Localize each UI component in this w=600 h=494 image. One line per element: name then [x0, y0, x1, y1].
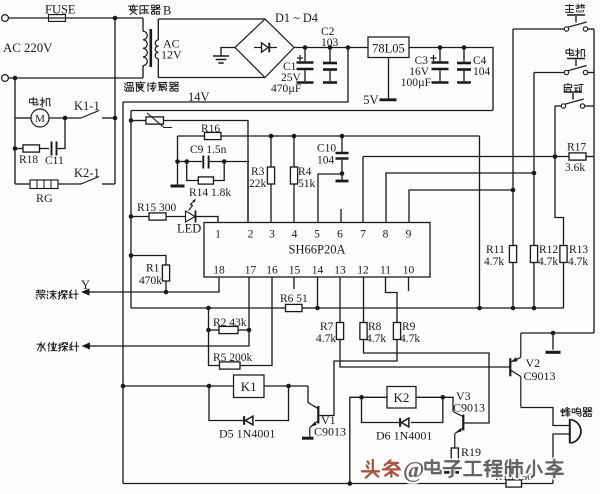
svg-text:3: 3	[269, 229, 275, 241]
label transformer 变压器	[129, 5, 161, 15]
wire pin5	[318, 174, 342, 223]
transformer B core	[150, 29, 153, 67]
wire thermistor to node	[164, 121, 249, 223]
switch heat 加热	[564, 15, 587, 31]
transistor V2 C9013	[510, 333, 521, 408]
junction AC bottom node	[13, 76, 18, 81]
svg-text:R19: R19	[461, 445, 481, 459]
wire R9 to V1 base	[320, 340, 398, 416]
svg-text:R17: R17	[567, 142, 586, 154]
wire pin18 to Y	[87, 277, 219, 292]
svg-text:51k: 51k	[298, 178, 316, 190]
switch K2-1	[81, 177, 115, 185]
wire pin12 R8	[363, 277, 365, 323]
capacitor C2	[323, 48, 337, 83]
wire AC top left	[8, 17, 48, 19]
wire R15 to LED	[166, 216, 186, 218]
svg-text:470k: 470k	[139, 275, 162, 287]
bridge rectifier D1-D4 diamond	[235, 19, 294, 78]
wire R2 right lead	[238, 329, 249, 331]
wire bottom rail left	[123, 483, 506, 485]
wire pin17 to water	[88, 277, 250, 346]
wire V2 to buzzer	[521, 408, 569, 426]
wire C9 right lead	[209, 161, 249, 163]
resistor R2	[219, 326, 238, 333]
wire motor left	[15, 117, 31, 119]
resistor R5	[220, 362, 241, 369]
resistor R6	[286, 304, 303, 311]
label start key 启动	[564, 83, 583, 92]
wire K1 line right	[264, 385, 308, 387]
svg-text:4.7k: 4.7k	[484, 256, 504, 268]
junction VDD pin3	[269, 134, 274, 139]
junction R17 start	[553, 154, 558, 159]
svg-text:R6 51: R6 51	[280, 293, 308, 305]
junction R2 right	[247, 328, 252, 333]
wire D5 left riser	[209, 386, 243, 421]
svg-text:16: 16	[266, 265, 278, 277]
junction pin8 motor-key	[532, 171, 537, 176]
wire rail 14V left	[122, 102, 124, 484]
wire LED to pin1	[196, 217, 218, 223]
resistor R15	[149, 213, 166, 220]
wire AC bottom	[8, 77, 143, 79]
wire heat key left	[513, 28, 564, 30]
wire R2 left lead	[209, 329, 220, 331]
svg-text:103: 103	[321, 37, 339, 49]
label buzzer 蜂鸣器	[561, 408, 592, 417]
svg-text:R5 200k: R5 200k	[213, 352, 253, 364]
watermark handle text	[403, 458, 563, 484]
wire R7 to V2 base	[340, 340, 510, 368]
resistor R17	[569, 153, 586, 160]
svg-text:FUSE: FUSE	[45, 3, 76, 17]
ground bar osc	[171, 185, 185, 188]
junction R1 bottom	[164, 290, 169, 295]
svg-text:2: 2	[248, 229, 254, 241]
capacitor C3	[431, 48, 449, 83]
wire R4 top	[293, 136, 295, 167]
wire secondary top to bridge	[158, 18, 265, 20]
svg-text:K1: K1	[241, 379, 257, 394]
wire 78L05 gnd pin	[388, 58, 390, 99]
wire 5V rail right of 78L05	[409, 48, 493, 111]
wire motor right	[49, 117, 81, 119]
svg-text:3.6k: 3.6k	[565, 162, 585, 174]
wire motor branch vertical	[14, 78, 16, 184]
svg-text:K2: K2	[394, 390, 410, 405]
ground bar 5V	[380, 98, 397, 101]
svg-text:8: 8	[383, 229, 389, 241]
wire K2 supply	[350, 397, 387, 483]
diode D5	[244, 416, 253, 425]
ground bridge	[213, 56, 229, 63]
wire osc gnd riser	[177, 136, 179, 185]
label foam probe 浆沫探针	[36, 290, 78, 299]
junction VDD C10	[340, 134, 345, 139]
wire pin4 R4 vertical	[293, 184, 295, 223]
svg-text:12V: 12V	[161, 48, 182, 62]
junction R2 left	[206, 328, 211, 333]
svg-text:10: 10	[403, 265, 415, 277]
thermistor strike	[147, 113, 172, 128]
junction C3 top	[438, 45, 443, 50]
svg-text:SH66P20A: SH66P20A	[289, 243, 346, 257]
junction D5 left	[207, 384, 212, 389]
svg-text:7: 7	[360, 229, 366, 241]
resistor R11	[509, 246, 516, 263]
svg-text:15: 15	[289, 265, 301, 277]
resistor R3	[267, 167, 274, 184]
junction probe divider tap	[206, 306, 211, 311]
svg-text:R7: R7	[320, 321, 334, 333]
wire thermistor line	[131, 120, 146, 122]
svg-text:M: M	[35, 113, 45, 125]
resistor R10 150	[506, 480, 522, 487]
wire C11 to motor node	[57, 118, 66, 149]
wire D6 right riser	[411, 397, 443, 422]
svg-text:R3: R3	[251, 166, 265, 178]
capacitor C4	[457, 48, 471, 83]
junction thermistor tap	[129, 118, 134, 123]
capacitor C1	[297, 48, 314, 83]
resistor R8	[360, 323, 367, 340]
wire R14 left riser	[187, 162, 199, 181]
junction C10 bottom	[340, 171, 345, 176]
junction snubber left	[13, 146, 18, 151]
wire R12 bottom lead	[533, 263, 535, 309]
svg-text:R1: R1	[146, 263, 160, 275]
wire rail 5V left	[130, 111, 132, 309]
wire RG right	[58, 183, 81, 185]
transformer B secondary	[155, 19, 158, 78]
svg-text:RG: RG	[36, 191, 53, 205]
wire V2 gnd stem	[552, 333, 554, 350]
svg-text:B: B	[163, 4, 171, 18]
wire start key right	[585, 105, 594, 107]
arrow water probe	[82, 342, 91, 349]
svg-text:@: @	[403, 458, 424, 484]
svg-text:R4: R4	[298, 166, 312, 178]
resistor R7	[336, 323, 343, 340]
wire pin2 stub	[247, 162, 249, 223]
svg-text:5V: 5V	[363, 93, 378, 107]
wire C9 left lead	[178, 161, 203, 163]
svg-text:D5 1N4001: D5 1N4001	[219, 427, 275, 441]
wire pin14	[317, 277, 319, 308]
wire R18 to C11	[40, 148, 50, 150]
svg-text:R14 1.8k: R14 1.8k	[189, 187, 231, 199]
wire V2 collector line	[521, 332, 594, 334]
capacitor C10	[336, 136, 349, 174]
ground bar C10	[336, 180, 349, 183]
svg-text:14V: 14V	[188, 90, 210, 104]
svg-text:C10: C10	[317, 143, 336, 155]
wire start key down	[555, 106, 564, 246]
wire pullup 5V line right	[318, 307, 564, 309]
svg-text:11: 11	[380, 265, 391, 277]
svg-text:R13: R13	[569, 244, 588, 256]
junction K1 rail tap	[121, 384, 126, 389]
junction 5V drop bottom	[477, 306, 482, 311]
junction motor node	[63, 116, 68, 121]
svg-text:R2 43k: R2 43k	[213, 317, 247, 329]
wire 5V drop to pullup line	[479, 136, 481, 308]
wire heat key right	[588, 28, 594, 30]
wire R1 bottom lead	[165, 281, 167, 292]
svg-text:Y: Y	[81, 278, 90, 292]
wire pin15 stub	[293, 277, 295, 289]
LED	[186, 199, 196, 223]
wire fuse to transformer	[66, 17, 144, 19]
svg-text:AC 220V: AC 220V	[3, 41, 53, 55]
svg-text:4.7k: 4.7k	[366, 333, 386, 345]
wire pin8	[386, 173, 534, 223]
wire K1 line left	[123, 385, 234, 387]
terminal AC N	[2, 75, 9, 82]
watermark halo	[362, 458, 563, 484]
svg-text:R8: R8	[368, 321, 382, 333]
svg-text:R12: R12	[539, 244, 558, 256]
wire RG left	[15, 183, 30, 185]
wire pin9	[409, 190, 513, 223]
wire R15 line	[131, 216, 149, 218]
svg-text:D6 1N4001: D6 1N4001	[376, 429, 432, 443]
svg-text:C9 1.5n: C9 1.5n	[190, 144, 227, 156]
wire C10 gnd stem	[341, 174, 343, 180]
ground bar V1 emitter	[302, 437, 314, 440]
svg-text:470µF: 470µF	[271, 83, 301, 95]
svg-text:78L05: 78L05	[372, 42, 405, 56]
svg-text:C9013: C9013	[524, 369, 556, 383]
arrow Y probe	[81, 288, 90, 295]
IC U1 SH66P20A	[204, 223, 430, 278]
wire heat vert	[512, 29, 514, 246]
wire motor key right	[588, 72, 594, 74]
resistor R13	[560, 246, 567, 263]
junction C2 top	[328, 45, 333, 50]
wire 14V line	[123, 48, 348, 103]
wire R17 right	[586, 156, 594, 158]
svg-text:100µF: 100µF	[401, 77, 431, 89]
wire R6 to pin14	[302, 307, 318, 309]
resistor R12	[530, 246, 537, 263]
svg-text:22k: 22k	[249, 178, 267, 190]
wire R8 to V3 base	[364, 340, 490, 424]
svg-text:9: 9	[406, 229, 412, 241]
wire motor key left	[534, 72, 564, 74]
buzzer 蜂鸣器	[570, 419, 581, 444]
wire R1 top tap	[131, 256, 166, 266]
wire D6 left riser	[362, 397, 400, 422]
node R14 top	[222, 159, 227, 164]
motor M	[31, 109, 49, 127]
ground bar V2	[546, 351, 561, 354]
wire pin7	[362, 157, 364, 223]
wire bottom rail right	[522, 483, 554, 485]
wire R3 top	[270, 136, 272, 167]
terminal AC L	[2, 15, 9, 22]
svg-text:17: 17	[245, 265, 257, 277]
capacitor C9	[203, 156, 208, 169]
fuse FUSE	[49, 15, 66, 22]
label motor 电机	[30, 98, 51, 108]
wire start key left	[555, 105, 561, 107]
regulator U 78L05	[368, 37, 409, 58]
wire motor vert	[533, 73, 535, 246]
junction R1 tap	[129, 253, 134, 258]
wire R14 right riser	[214, 162, 225, 181]
wire pin6 stub	[340, 209, 342, 223]
relay K2	[387, 387, 416, 409]
svg-text:13: 13	[334, 265, 346, 277]
wire R13 bottom lead	[563, 263, 565, 309]
svg-text:104: 104	[473, 66, 491, 78]
junction VDD pin4	[292, 134, 297, 139]
svg-text:12: 12	[357, 265, 369, 277]
svg-text:18: 18	[213, 265, 225, 277]
wire pin13 R7	[339, 277, 341, 323]
wire buzzer return	[553, 434, 569, 484]
wire pin16 to R5	[240, 277, 272, 366]
svg-text:4.7k: 4.7k	[400, 333, 420, 345]
wire 14V rail	[294, 47, 368, 49]
junction R12 bottom	[532, 306, 537, 311]
svg-text:6: 6	[337, 229, 343, 241]
diode D6	[400, 418, 409, 427]
resistor R9	[393, 323, 400, 340]
resistor R14	[198, 177, 213, 184]
wire pin10 stub	[408, 277, 410, 291]
svg-text:R16: R16	[201, 123, 220, 135]
switch start 启动	[561, 92, 584, 108]
svg-text:5: 5	[314, 229, 320, 241]
capacitor C11	[52, 142, 57, 156]
svg-text:K2-1: K2-1	[74, 166, 100, 180]
junction D5 right	[286, 384, 291, 389]
wire divider vertical	[209, 308, 220, 366]
svg-text:14: 14	[312, 265, 324, 277]
svg-text:K1-1: K1-1	[74, 99, 100, 113]
label heat key 加热	[566, 4, 585, 12]
junction pin14 5V	[315, 306, 320, 311]
wire bridge left to ground	[221, 48, 235, 56]
junction K2 rail tap	[348, 481, 353, 486]
svg-text:R15 300: R15 300	[137, 202, 177, 214]
resistor R16	[205, 132, 222, 139]
transistor V3 C9013	[453, 412, 463, 449]
svg-text:D1 ~ D4: D1 ~ D4	[275, 11, 318, 25]
svg-text:V2: V2	[526, 356, 541, 370]
wire pin7 start line	[363, 156, 569, 158]
wire R19 gnd lead	[454, 462, 456, 471]
wire R11 bottom lead	[512, 263, 514, 309]
junction D6 left	[359, 395, 364, 400]
junction 14V tap	[346, 45, 351, 50]
resistor R1	[162, 265, 169, 281]
wire secondary bottom to bridge	[158, 77, 265, 79]
junction R15 tap	[129, 214, 134, 219]
wire 5V line	[131, 110, 493, 112]
label water probe 水位探针	[37, 342, 79, 351]
junction C4 top	[462, 45, 467, 50]
wire VDD line	[178, 135, 480, 137]
switch motor 电机	[564, 59, 587, 75]
wire fuse node down	[114, 18, 116, 184]
bridge rectifier inner diode	[254, 43, 277, 53]
svg-text:1: 1	[215, 229, 221, 241]
svg-text:C9013: C9013	[453, 401, 485, 415]
wire D5 right riser	[255, 386, 289, 421]
junction K1-1 right	[113, 116, 118, 121]
junction fuse node	[113, 16, 118, 21]
svg-text:R18: R18	[19, 154, 38, 166]
label motor key 电机	[566, 49, 585, 58]
thermistor RT body	[146, 117, 164, 124]
svg-text:4: 4	[292, 229, 298, 241]
wire right rail	[593, 29, 595, 333]
heater RG	[30, 180, 58, 189]
ground bar R19	[444, 471, 459, 474]
wire snubber left	[15, 148, 23, 150]
svg-text:C9013: C9013	[314, 425, 346, 439]
svg-text:C11: C11	[45, 155, 64, 167]
junction pin9 heat-key	[511, 188, 516, 193]
svg-text:R11: R11	[486, 244, 505, 256]
junction D6 right	[441, 395, 446, 400]
svg-text:LED: LED	[177, 222, 201, 236]
svg-text:4.7k: 4.7k	[538, 256, 558, 268]
relay K1	[234, 375, 265, 398]
junction V2 gnd tap	[551, 331, 556, 336]
resistor R18	[23, 145, 40, 152]
watermark toutiao logo 头条	[362, 460, 400, 478]
svg-text:4.7k: 4.7k	[316, 333, 336, 345]
junction R11 bottom	[511, 306, 516, 311]
junction C1 top	[303, 45, 308, 50]
transistor V1 C9013	[308, 386, 318, 437]
node L	[175, 159, 180, 164]
wire pin11 jog	[386, 277, 398, 323]
wire pin3 R3 vertical	[270, 184, 272, 223]
svg-text:R9: R9	[402, 321, 416, 333]
node L2	[184, 159, 189, 164]
svg-text:4.7k: 4.7k	[568, 256, 588, 268]
label temperature sensor 温度传感器	[124, 82, 178, 92]
resistor R19	[451, 448, 458, 462]
wire K2 right	[416, 397, 453, 411]
svg-text:104: 104	[317, 155, 335, 167]
switch K1-1	[81, 111, 115, 119]
wire pullup 5V line	[131, 307, 286, 309]
transformer B primary	[143, 18, 147, 78]
resistor R4	[290, 167, 297, 184]
